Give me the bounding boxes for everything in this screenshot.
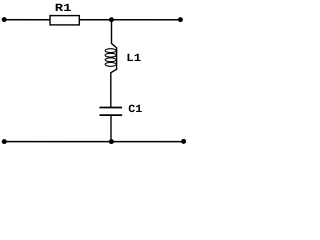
svg-text:C1: C1 <box>128 104 142 116</box>
svg-text:L1: L1 <box>126 53 141 65</box>
svg-text:R1: R1 <box>55 3 72 15</box>
